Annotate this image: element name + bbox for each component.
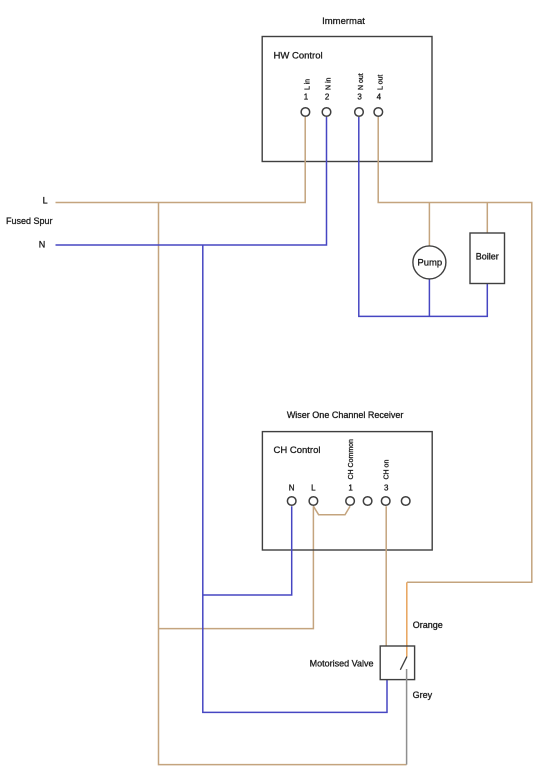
svg-text:1: 1 <box>348 483 353 492</box>
svg-text:L out: L out <box>377 75 384 90</box>
svg-text:Pump: Pump <box>417 258 442 269</box>
terminal HW 3 <box>355 108 364 117</box>
svg-text:4: 4 <box>377 93 382 102</box>
svg-text:1: 1 <box>304 93 309 102</box>
svg-text:Grey: Grey <box>413 690 433 700</box>
wire orange from L out corner down into valve <box>406 582 408 657</box>
svg-text:N: N <box>39 240 46 250</box>
pin label 2 N in <box>325 77 333 101</box>
terminal HW 2 <box>322 108 331 117</box>
svg-text:Boiler: Boiler <box>476 252 499 262</box>
svg-text:N: N <box>289 483 295 492</box>
svg-text:CH Common: CH Common <box>348 439 355 480</box>
wire L out branch down to boiler <box>486 203 488 234</box>
pin label 1 L in <box>304 79 312 102</box>
svg-text:Wiser One Channel Receiver: Wiser One Channel Receiver <box>287 410 404 420</box>
wire pump bottom to N out line <box>428 279 430 316</box>
terminal CH 1 <box>346 497 355 506</box>
svg-text:Fused Spur: Fused Spur <box>6 216 53 226</box>
terminal CH L <box>309 497 318 506</box>
terminal CH N <box>287 497 296 506</box>
motorised valve box <box>380 646 414 680</box>
svg-text:CH on: CH on <box>384 460 391 480</box>
wire CH N down and left to neutral riser <box>203 506 292 595</box>
svg-text:L in: L in <box>304 79 311 90</box>
svg-text:3: 3 <box>357 93 362 102</box>
pin label 1 CH Common <box>348 439 355 492</box>
boiler B1 <box>470 233 505 284</box>
pin label 3 N out <box>357 73 365 101</box>
svg-text:3: 3 <box>384 483 389 492</box>
box CH Control (Wiser receiver) <box>262 432 432 550</box>
box HW Control (Immermat) <box>262 37 432 162</box>
svg-text:Immermat: Immermat <box>322 16 365 27</box>
terminal CH unlabeled A <box>363 497 372 506</box>
switch contact inside valve <box>400 657 407 670</box>
terminal HW 1 <box>301 108 310 117</box>
svg-text:L: L <box>311 483 316 492</box>
svg-text:N out: N out <box>358 73 365 90</box>
wire grey from valve switch down to bottom tan wire <box>406 669 408 765</box>
svg-text:HW Control: HW Control <box>274 51 323 62</box>
wire L out from HW terminal 4 across top right down to orange corner <box>378 117 532 582</box>
terminal HW 4 <box>374 108 383 117</box>
terminal CH unlabeled B <box>401 497 410 506</box>
wire neutral riser from N line down to valve blue <box>203 245 387 712</box>
svg-text:CH Control: CH Control <box>274 445 321 456</box>
wire N out from HW terminal 3 to pump and boiler bottoms <box>359 117 488 316</box>
wire CH 3 down to motorised valve top <box>385 506 387 646</box>
svg-text:2: 2 <box>325 93 330 102</box>
wire L tee down left side to bottom corner <box>159 203 407 765</box>
svg-text:L: L <box>43 196 48 206</box>
wire L branch to CH Control L terminal <box>159 506 314 628</box>
terminal CH 3 <box>381 497 390 506</box>
pin label 3 CH on <box>384 460 391 493</box>
wire jumper CH L to CH 1 <box>313 506 350 515</box>
svg-text:Orange: Orange <box>413 620 443 630</box>
wire L line from fused spur to HW terminal 1 <box>56 117 306 203</box>
wire N line from fused spur to HW terminal 2 <box>56 117 327 245</box>
svg-text:Motorised Valve: Motorised Valve <box>310 659 374 669</box>
pin label 4 L out <box>377 75 385 102</box>
svg-text:N in: N in <box>326 77 333 90</box>
wire L out branch down to pump <box>428 203 430 247</box>
pump P1 <box>413 246 446 279</box>
